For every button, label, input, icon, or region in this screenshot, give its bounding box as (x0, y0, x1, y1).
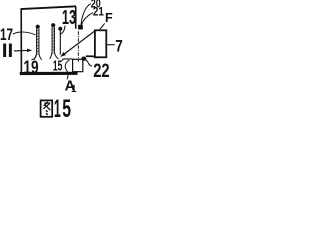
svg-text:22: 22 (93, 60, 110, 82)
wire shelf left of pedestal (62, 59, 73, 61)
wire leader F (100, 23, 105, 29)
wire box top edge (21, 6, 76, 9)
electrode wire 13 ball (58, 27, 62, 31)
svg-text:II: II (2, 41, 14, 62)
svg-text:19: 19 (23, 56, 38, 77)
wire box bottom thick edge (20, 72, 78, 75)
electrode pin 19 left foot (34, 54, 37, 60)
node slit block 21 (filled square) (78, 25, 83, 30)
wire beam F diagonal (64, 31, 95, 55)
wire dash-dot axis line (77, 31, 79, 61)
wire leader 15 and A1 (65, 60, 69, 79)
node arrow II head (27, 49, 32, 53)
electrode pin 19 body (36, 29, 39, 55)
wire leader 19 (31, 55, 36, 60)
node lens block 7 (95, 30, 106, 57)
wire box left edge (20, 9, 22, 75)
wire leader 20 (81, 4, 91, 25)
electrode pin 19 right foot (39, 54, 42, 60)
svg-text:F: F (105, 11, 113, 25)
wire leader 17 (13, 32, 36, 35)
wire leader 21 (81, 13, 93, 25)
node beam arrowhead (60, 52, 66, 57)
wire leader 22 (85, 60, 92, 66)
electrode pin 19 ball top (36, 25, 40, 29)
svg-text:5: 5 (62, 95, 71, 120)
svg-text:1: 1 (71, 84, 77, 95)
svg-text:7: 7 (115, 37, 123, 55)
wire bump to lens shelf (86, 55, 95, 57)
electrode wire 13 stem (59, 31, 61, 55)
wire leader 13 (60, 26, 65, 35)
node pedestal block (73, 59, 83, 71)
electrode pin 15 left foot (50, 53, 52, 59)
electrode pin 15 right foot (55, 53, 59, 59)
wire leader to 7 (107, 44, 115, 46)
electrode pin 15 ball top (51, 23, 55, 27)
svg-text:13: 13 (62, 6, 76, 29)
svg-text:1: 1 (54, 95, 61, 120)
node clamp bump 22 (81, 57, 86, 61)
wire arrow II shaft (14, 49, 28, 52)
electrode pin 15 body (52, 27, 55, 54)
svg-text:15: 15 (53, 58, 62, 74)
svg-text:21: 21 (93, 5, 104, 19)
wire box right edge upper (75, 6, 77, 29)
label caption Fig glyph (41, 100, 53, 116)
